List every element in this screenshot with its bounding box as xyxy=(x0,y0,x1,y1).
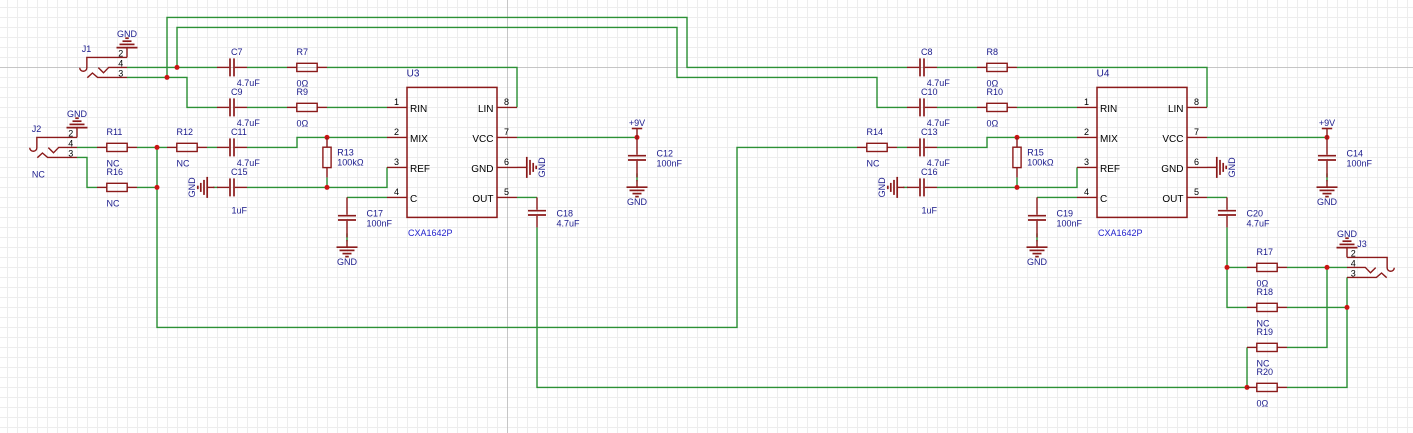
value NC of R11 xyxy=(107,158,120,168)
svg-text:R11: R11 xyxy=(107,127,123,137)
svg-text:0Ω: 0Ω xyxy=(297,118,309,128)
ground at C15 xyxy=(187,177,214,198)
svg-text:J3: J3 xyxy=(1357,239,1367,249)
junction mix bus node xyxy=(155,185,160,190)
wire J3 pin 3 down xyxy=(1346,277,1348,307)
capacitor C13 xyxy=(907,138,937,156)
label U3 xyxy=(407,68,420,79)
label C7 xyxy=(231,47,243,57)
svg-text:C12: C12 xyxy=(657,148,674,158)
svg-text:GND: GND xyxy=(337,257,358,267)
svg-text:GND: GND xyxy=(877,177,887,198)
svg-text:1uF: 1uF xyxy=(232,206,248,216)
wire J1 ring to C9 xyxy=(127,77,217,107)
wire C18 to R20 xyxy=(537,227,1247,387)
pin 8 LIN of U3 xyxy=(478,97,517,115)
svg-text:GND: GND xyxy=(471,164,493,175)
junction R19 R20 node xyxy=(1245,385,1250,390)
svg-text:5: 5 xyxy=(1194,187,1199,197)
svg-text:2: 2 xyxy=(394,127,399,137)
wire J1 tip to C7 xyxy=(127,66,217,68)
value NC of R12 xyxy=(177,158,190,168)
svg-text:R8: R8 xyxy=(987,47,999,57)
wire C8 to R8 xyxy=(937,66,977,68)
label C20 xyxy=(1247,208,1264,218)
svg-text:8: 8 xyxy=(504,97,509,107)
svg-text:4: 4 xyxy=(1351,258,1356,268)
label R7 xyxy=(297,47,309,57)
svg-text:R15: R15 xyxy=(1027,148,1044,158)
wire R11 to R12 xyxy=(137,146,167,148)
svg-text:R12: R12 xyxy=(177,127,194,137)
value 1uF of C15 xyxy=(232,206,248,216)
resistor R13 xyxy=(323,137,331,177)
svg-text:R13: R13 xyxy=(337,148,354,158)
value 100kΩ of R15 xyxy=(1027,157,1054,167)
resistor R10 xyxy=(977,103,1017,111)
pin 1 RIN of U3 xyxy=(387,97,427,115)
svg-text:OUT: OUT xyxy=(1162,194,1183,205)
svg-text:GND: GND xyxy=(537,157,547,178)
resistor R15 xyxy=(1013,137,1021,177)
pin 4 of J3 xyxy=(1351,258,1356,268)
wire C14 to ground xyxy=(1326,173,1328,181)
svg-text:0Ω: 0Ω xyxy=(1257,398,1269,408)
ground at C16 xyxy=(877,177,904,198)
wire U3 OUT to C18 xyxy=(517,196,537,198)
svg-text:R18: R18 xyxy=(1257,287,1274,297)
resistor R11 xyxy=(97,143,137,151)
resistor R12 xyxy=(167,143,207,151)
svg-text:GND: GND xyxy=(1027,257,1048,267)
svg-text:CXA1642P: CXA1642P xyxy=(1098,228,1143,238)
ground at J3 pin 2 xyxy=(1337,229,1358,258)
capacitor C10 xyxy=(907,98,937,116)
capacitor C8 xyxy=(907,58,937,76)
pin 8 LIN of U4 xyxy=(1168,97,1207,115)
wire C10 to R10 xyxy=(937,106,977,108)
value NC of R14 xyxy=(867,158,880,168)
label C11 xyxy=(231,127,247,137)
wire output node to R17 xyxy=(1227,266,1247,268)
value 100nF of C12 xyxy=(657,158,683,168)
wire R17 to J3 pin 4 xyxy=(1287,266,1347,268)
capacitor C12 xyxy=(628,137,646,177)
label C12 xyxy=(657,148,674,158)
wire R14 to C13 xyxy=(897,146,907,148)
svg-text:C10: C10 xyxy=(921,87,938,97)
svg-text:GND: GND xyxy=(187,177,197,198)
value NC of R19 xyxy=(1257,358,1270,368)
label C17 xyxy=(367,208,384,218)
svg-text:C15: C15 xyxy=(231,167,248,177)
wire R10 to U4 RIN xyxy=(1017,106,1077,108)
resistor R18 xyxy=(1247,303,1287,311)
capacitor C14 xyxy=(1318,137,1336,177)
ground at J2 pin 2 xyxy=(67,109,88,137)
svg-text:J1: J1 xyxy=(82,44,92,54)
label C13 xyxy=(921,127,938,137)
label R12 xyxy=(177,127,194,137)
pin 5 OUT of U4 xyxy=(1162,187,1207,205)
svg-text:MIX: MIX xyxy=(410,134,428,145)
svg-text:C13: C13 xyxy=(921,127,938,137)
pin 7 VCC of U3 xyxy=(472,127,517,145)
pin 3 REF of U4 xyxy=(1077,157,1120,175)
svg-text:GND: GND xyxy=(1161,164,1183,175)
+9V power flag left xyxy=(629,118,645,138)
svg-text:J2: J2 xyxy=(32,124,42,134)
junction U3 MIX node xyxy=(325,135,330,140)
label C10 xyxy=(921,87,938,97)
pin 3 of J2 xyxy=(68,148,73,158)
wire R15 to REF net xyxy=(1016,177,1018,187)
svg-text:OUT: OUT xyxy=(472,194,493,205)
connector J2 audio jack xyxy=(30,137,77,157)
wire U4 VCC to +9V xyxy=(1207,136,1327,138)
value NC of R18 xyxy=(1257,318,1270,328)
wire mix bus to R14 xyxy=(157,147,857,327)
svg-text:0Ω: 0Ω xyxy=(987,118,999,128)
label R20 xyxy=(1257,367,1274,377)
wire C16 to U4 REF xyxy=(937,167,1077,187)
junction J1 ring node xyxy=(165,75,170,80)
wire ground to C16 xyxy=(903,186,908,188)
value 4.7uF of C18 xyxy=(557,218,581,228)
wire C13 to U4 MIX xyxy=(937,137,1077,147)
svg-text:C9: C9 xyxy=(231,87,243,97)
junction output node xyxy=(1225,265,1230,270)
resistor R9 xyxy=(287,103,327,111)
value CXA1642P of U4 xyxy=(1098,228,1143,238)
svg-text:NC: NC xyxy=(867,158,880,168)
svg-text:NC: NC xyxy=(107,198,120,208)
wire R18 to J3 pin 3 net xyxy=(1287,306,1347,308)
svg-text:GND: GND xyxy=(67,109,88,119)
ground at U4 pin 6 xyxy=(1207,157,1237,178)
svg-text:MIX: MIX xyxy=(1100,134,1118,145)
svg-text:R9: R9 xyxy=(297,87,309,97)
svg-text:+9V: +9V xyxy=(629,118,645,128)
value 100nF of C17 xyxy=(367,218,393,228)
svg-text:3: 3 xyxy=(118,68,123,78)
pin 2 MIX of U4 xyxy=(1077,127,1118,145)
resistor R16 xyxy=(97,183,137,191)
svg-text:R20: R20 xyxy=(1257,367,1274,377)
junction J2 tip node xyxy=(155,145,160,150)
capacitor C11 xyxy=(217,138,247,156)
wire ground to C15 xyxy=(213,186,218,188)
svg-text:2: 2 xyxy=(68,128,73,138)
wire R16 to bus xyxy=(137,186,159,188)
label C18 xyxy=(557,208,574,218)
value 4.7uF of C10 xyxy=(927,118,951,128)
value 0Ω of R17 xyxy=(1257,278,1269,288)
value 1uF of C16 xyxy=(922,206,938,216)
svg-text:100nF: 100nF xyxy=(367,218,393,228)
svg-text:100nF: 100nF xyxy=(1057,218,1083,228)
value 4.7uF of C11 xyxy=(237,158,261,168)
svg-text:C18: C18 xyxy=(557,208,574,218)
value 4.7uF of C9 xyxy=(237,118,261,128)
pin 4 of J1 xyxy=(118,58,123,68)
pin 7 VCC of U4 xyxy=(1162,127,1207,145)
svg-text:6: 6 xyxy=(1194,157,1199,167)
pin 4 C of U3 xyxy=(387,187,417,205)
value 0Ω of R20 xyxy=(1257,398,1269,408)
svg-text:R19: R19 xyxy=(1257,327,1274,337)
wire R12 to C11 xyxy=(207,146,217,148)
svg-text:8: 8 xyxy=(1194,97,1199,107)
svg-text:NC: NC xyxy=(32,169,45,179)
label C15 xyxy=(231,167,248,177)
svg-text:GND: GND xyxy=(1227,157,1237,178)
label J2 xyxy=(32,124,42,134)
value 0Ω of R7 xyxy=(297,78,309,88)
svg-text:VCC: VCC xyxy=(472,134,493,145)
svg-text:7: 7 xyxy=(504,127,509,137)
label R9 xyxy=(297,87,309,97)
junction U4 MIX node xyxy=(1015,135,1020,140)
svg-text:100kΩ: 100kΩ xyxy=(337,157,364,167)
svg-text:C20: C20 xyxy=(1247,208,1264,218)
junction R17 R19 node xyxy=(1325,265,1330,270)
ground below C12 xyxy=(627,180,648,207)
+9V power flag right xyxy=(1319,118,1335,138)
label R11 xyxy=(107,127,123,137)
value 100kΩ of R13 xyxy=(337,157,364,167)
svg-text:3: 3 xyxy=(68,148,73,158)
connector J3 audio jack xyxy=(1347,257,1394,277)
svg-text:5: 5 xyxy=(504,187,509,197)
label R18 xyxy=(1257,287,1274,297)
label C9 xyxy=(231,87,243,97)
label R13 xyxy=(337,148,354,158)
svg-text:RIN: RIN xyxy=(410,104,427,115)
wire J1 tip feed to C10 xyxy=(177,27,907,107)
wire R9 to U3 RIN xyxy=(327,106,387,108)
label U4 xyxy=(1097,68,1110,79)
connector J1 audio jack xyxy=(80,57,127,77)
capacitor C19 xyxy=(1028,197,1046,237)
wire J2 tip to R11 xyxy=(77,146,97,148)
svg-text:4: 4 xyxy=(394,187,399,197)
capacitor C18 xyxy=(528,197,546,227)
wire C19 to U4 C xyxy=(1037,196,1077,198)
svg-text:2: 2 xyxy=(1084,127,1089,137)
value 4.7uF of C8 xyxy=(927,78,951,88)
svg-text:GND: GND xyxy=(627,197,648,207)
label J1 xyxy=(82,44,92,54)
label C8 xyxy=(921,47,933,57)
value 4.7uF of C13 xyxy=(927,158,951,168)
value 0Ω of R10 xyxy=(987,118,999,128)
svg-text:4: 4 xyxy=(68,138,73,148)
svg-text:4: 4 xyxy=(1084,187,1089,197)
value 4.7uF of C7 xyxy=(237,78,261,88)
pin 2 MIX of U3 xyxy=(387,127,428,145)
op-amp U4 CXA1642P body xyxy=(1097,87,1187,217)
svg-text:C: C xyxy=(1100,194,1107,205)
wire C17 to ground xyxy=(346,233,348,241)
capacitor C17 xyxy=(338,197,356,237)
resistor R14 xyxy=(857,143,897,151)
pin 4 C of U4 xyxy=(1077,187,1107,205)
wire C15 to U3 REF xyxy=(247,167,387,187)
value 4.7uF of C20 xyxy=(1247,218,1271,228)
svg-text:U4: U4 xyxy=(1097,68,1110,79)
wire R8 to U4 LIN xyxy=(1017,67,1207,107)
capacitor C16 xyxy=(907,178,937,196)
svg-text:U3: U3 xyxy=(407,68,420,79)
svg-text:100nF: 100nF xyxy=(657,158,683,168)
svg-text:6: 6 xyxy=(504,157,509,167)
junction +9V node right xyxy=(1325,135,1330,140)
label J3 xyxy=(1357,239,1367,249)
svg-text:C8: C8 xyxy=(921,47,933,57)
svg-text:C19: C19 xyxy=(1057,208,1074,218)
wire R19 to R20 node xyxy=(1246,347,1248,387)
pin 6 GND of U4 xyxy=(1161,157,1207,175)
svg-text:4.7uF: 4.7uF xyxy=(1247,218,1271,228)
ground below C19 xyxy=(1027,240,1048,267)
wire C7 to R7 xyxy=(247,66,287,68)
ground at U3 pin 6 xyxy=(517,157,547,178)
wire C9 to R9 xyxy=(247,106,287,108)
svg-text:3: 3 xyxy=(1351,268,1356,278)
ground below C17 xyxy=(337,240,358,267)
svg-text:4.7uF: 4.7uF xyxy=(557,218,581,228)
junction U4 REF node xyxy=(1015,185,1020,190)
svg-text:C7: C7 xyxy=(231,47,243,57)
svg-text:100nF: 100nF xyxy=(1347,158,1373,168)
ground at J1 pin 2 xyxy=(117,29,138,58)
svg-text:100kΩ: 100kΩ xyxy=(1027,157,1054,167)
junction J1 tip node xyxy=(175,65,180,70)
op-amp U3 CXA1642P body xyxy=(407,87,497,217)
svg-text:GND: GND xyxy=(1317,197,1338,207)
wire U3 VCC to +9V xyxy=(517,136,637,138)
capacitor C7 xyxy=(217,58,247,76)
svg-text:1: 1 xyxy=(1084,97,1089,107)
value NC of R16 xyxy=(107,198,120,208)
label C16 xyxy=(921,167,938,177)
svg-text:C16: C16 xyxy=(921,167,938,177)
svg-text:REF: REF xyxy=(1100,164,1120,175)
svg-text:1uF: 1uF xyxy=(922,206,938,216)
pin 6 GND of U3 xyxy=(471,157,517,175)
wire U4 OUT to C20 xyxy=(1207,196,1227,198)
pin 2 of J1 xyxy=(118,48,123,58)
capacitor C20 xyxy=(1218,197,1236,227)
svg-text:LIN: LIN xyxy=(1168,104,1184,115)
svg-text:3: 3 xyxy=(394,157,399,167)
svg-text:C11: C11 xyxy=(231,127,247,137)
pin 4 of J2 xyxy=(68,138,73,148)
wire J2 ring to R16 xyxy=(77,157,97,187)
svg-text:GND: GND xyxy=(1337,229,1358,239)
svg-text:R17: R17 xyxy=(1257,247,1274,257)
ground below C14 xyxy=(1317,180,1338,207)
svg-text:1: 1 xyxy=(394,97,399,107)
svg-text:2: 2 xyxy=(1351,248,1356,258)
wire output node to R18 xyxy=(1227,267,1247,307)
svg-text:R14: R14 xyxy=(867,127,884,137)
pin 3 REF of U3 xyxy=(387,157,430,175)
svg-text:CXA1642P: CXA1642P xyxy=(408,228,453,238)
value 100nF of C14 xyxy=(1347,158,1373,168)
svg-text:LIN: LIN xyxy=(478,104,494,115)
svg-text:C14: C14 xyxy=(1347,148,1364,158)
label R10 xyxy=(987,87,1004,97)
wire J1 ring feed to C8 xyxy=(167,17,907,77)
label R8 xyxy=(987,47,999,57)
wire R20 to J3 pin 3 net xyxy=(1287,307,1347,387)
junction J3 pin3 node xyxy=(1345,305,1350,310)
label R17 xyxy=(1257,247,1274,257)
label R16 xyxy=(107,167,124,177)
wire C19 to ground xyxy=(1036,233,1038,241)
pin 3 of J3 xyxy=(1351,268,1356,278)
wire R19 to R17 net xyxy=(1287,267,1327,347)
pin 5 OUT of U3 xyxy=(472,187,517,205)
capacitor C9 xyxy=(217,98,247,116)
wire C11 to U3 MIX xyxy=(247,137,387,147)
net label NC at J2 xyxy=(32,169,45,179)
wire C12 to ground xyxy=(636,173,638,181)
wire R7 to U3 LIN xyxy=(327,67,517,107)
svg-text:7: 7 xyxy=(1194,127,1199,137)
svg-text:R16: R16 xyxy=(107,167,124,177)
svg-text:C: C xyxy=(410,194,417,205)
svg-text:3: 3 xyxy=(1084,157,1089,167)
label R14 xyxy=(867,127,884,137)
svg-text:R7: R7 xyxy=(297,47,309,57)
wire C17 to U3 C xyxy=(347,196,387,198)
resistor R19 xyxy=(1247,343,1287,351)
value 0Ω of R8 xyxy=(987,78,999,88)
label R19 xyxy=(1257,327,1274,337)
wire R13 to REF net xyxy=(326,177,328,187)
junction +9V node left xyxy=(635,135,640,140)
wire C20 to output node xyxy=(1226,227,1228,267)
capacitor C15 xyxy=(217,178,247,196)
label C19 xyxy=(1057,208,1074,218)
value 100nF of C19 xyxy=(1057,218,1083,228)
svg-text:2: 2 xyxy=(118,48,123,58)
resistor R8 xyxy=(977,63,1017,71)
resistor R20 xyxy=(1247,383,1287,391)
svg-text:GND: GND xyxy=(117,29,138,39)
label R15 xyxy=(1027,148,1044,158)
resistor R7 xyxy=(287,63,327,71)
svg-text:NC: NC xyxy=(177,158,190,168)
svg-text:RIN: RIN xyxy=(1100,104,1117,115)
pin 1 RIN of U4 xyxy=(1077,97,1117,115)
value 0Ω of R9 xyxy=(297,118,309,128)
svg-text:4: 4 xyxy=(118,58,123,68)
svg-text:C17: C17 xyxy=(367,208,384,218)
pin 2 of J2 xyxy=(68,128,73,138)
pin 3 of J1 xyxy=(118,68,123,78)
resistor R17 xyxy=(1247,263,1287,271)
pin 2 of J3 xyxy=(1351,248,1356,258)
label C14 xyxy=(1347,148,1364,158)
svg-text:REF: REF xyxy=(410,164,430,175)
svg-text:R10: R10 xyxy=(987,87,1004,97)
svg-text:+9V: +9V xyxy=(1319,118,1335,128)
svg-text:VCC: VCC xyxy=(1162,134,1183,145)
